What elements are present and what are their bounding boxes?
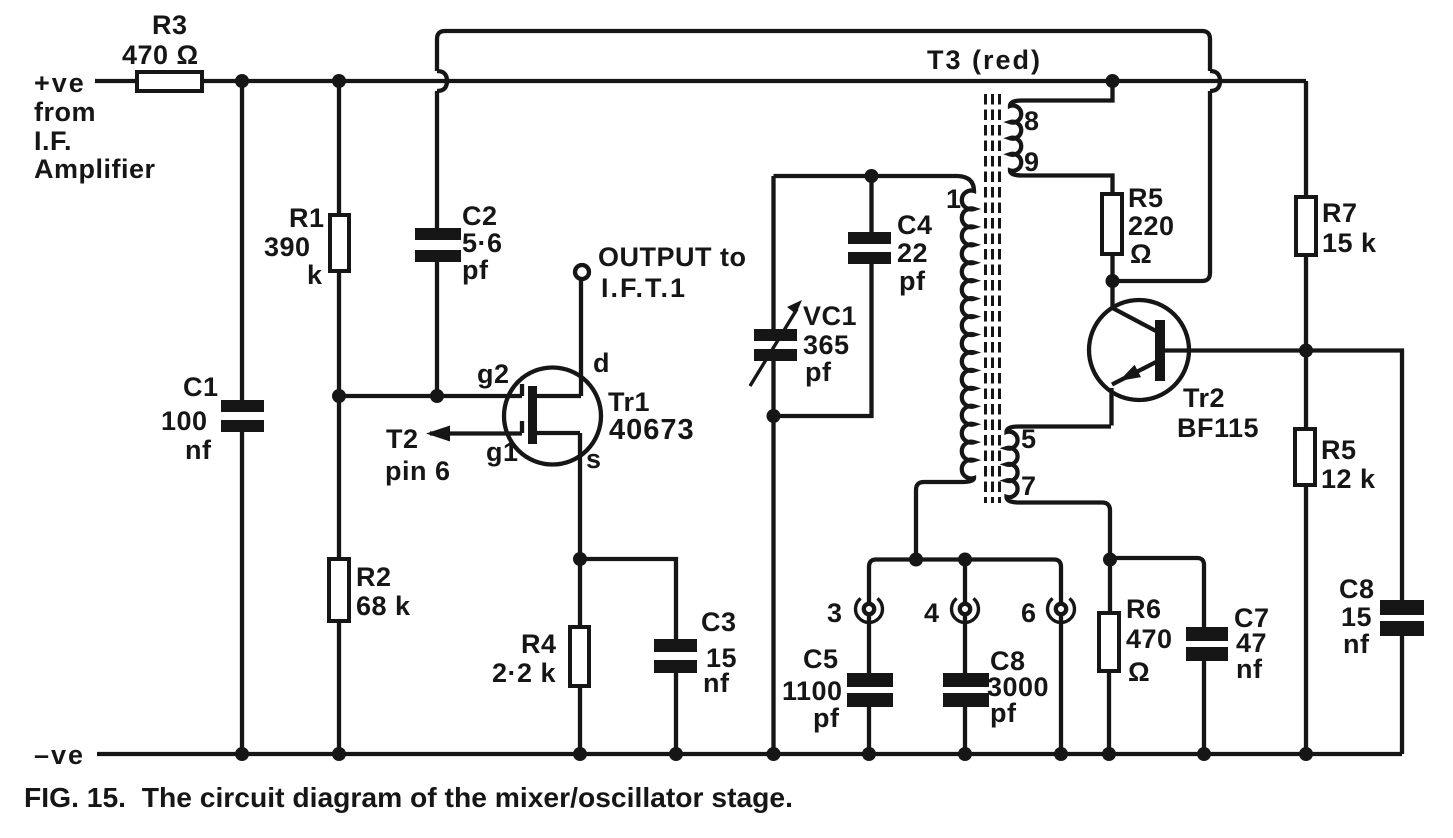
junction dot -ve C3 — [669, 747, 683, 761]
svg-text:R1: R1 — [289, 203, 325, 233]
transistor Tr2 (BF115) — [1089, 281, 1306, 443]
wire source column — [578, 433, 582, 754]
junction dot R1/g2 — [332, 389, 346, 403]
junction dot -ve R6 — [1102, 747, 1116, 761]
svg-text:5·6: 5·6 — [462, 228, 503, 258]
capacitor C3 — [654, 607, 737, 698]
wire loop right vertical — [1113, 91, 1211, 281]
svg-text:Ω: Ω — [1130, 239, 1152, 269]
svg-text:R3: R3 — [152, 10, 188, 40]
wire top feedback loop — [437, 31, 1210, 71]
svg-text:nf: nf — [703, 668, 730, 698]
svg-text:12 k: 12 k — [1321, 464, 1376, 494]
resistor R2 — [329, 559, 411, 621]
gate bar Tr1 — [528, 386, 537, 444]
variable capacitor VC1 — [750, 300, 857, 387]
svg-text:pin 6: pin 6 — [385, 456, 451, 486]
junction dot base node — [1299, 344, 1313, 358]
svg-text:220: 220 — [1128, 211, 1175, 241]
capacitor C7 — [1186, 603, 1270, 684]
resistor R7 — [1296, 197, 1377, 258]
svg-text:1100: 1100 — [782, 676, 843, 706]
svg-text:C3: C3 — [701, 607, 737, 637]
wire -ve rail — [97, 752, 1402, 756]
svg-text:R5: R5 — [1321, 435, 1357, 465]
resistor R3 — [122, 10, 202, 91]
wire hop of C2 column over +ve rail — [437, 71, 447, 91]
terminal 3 — [827, 598, 883, 628]
svg-text:I.F.: I.F. — [34, 126, 72, 156]
terminal 6 — [1021, 598, 1074, 628]
wire terminal bus — [869, 560, 1061, 604]
svg-text:VC1: VC1 — [803, 301, 857, 331]
gate g2 tick — [520, 384, 524, 396]
svg-text:15: 15 — [1341, 602, 1372, 632]
arrowhead T2 — [426, 426, 450, 442]
wire hop loop over +ve rail — [1210, 71, 1220, 91]
gate g1 tick — [520, 421, 524, 433]
junction dot -ve C1 — [235, 747, 249, 761]
wire C8 3000 to -ve — [963, 707, 967, 754]
wire C3 to -ve — [674, 673, 678, 754]
svg-text:pf: pf — [462, 255, 489, 285]
wire tap7 to C7 — [1110, 558, 1204, 627]
junction dot tap7/R6 — [1103, 553, 1117, 567]
wire terminal 4 lead — [963, 560, 967, 604]
svg-text:pf: pf — [990, 698, 1017, 728]
wire terminal 6 to -ve — [1059, 614, 1063, 754]
wire C8 to -ve — [1400, 636, 1404, 754]
transformer T3 secondary 5-7 — [1007, 424, 1112, 558]
svg-text:BF115: BF115 — [1177, 413, 1259, 443]
svg-text:R4: R4 — [521, 629, 557, 659]
junction dot -ve C5 — [862, 747, 876, 761]
svg-text:s: s — [586, 444, 602, 474]
resistor R4 — [492, 627, 589, 688]
wire winding bottom feed — [914, 556, 918, 560]
wire source to C3 — [580, 559, 676, 639]
svg-text:C8: C8 — [1339, 574, 1375, 604]
source channel — [537, 431, 580, 435]
junction dot -ve VC1 — [767, 747, 781, 761]
transformer T3 core — [986, 94, 1000, 503]
junction dot -ve R4 — [573, 747, 587, 761]
wire R7 column — [1304, 81, 1308, 754]
resistor R5 12k — [1295, 429, 1376, 494]
wire base — [1165, 348, 1306, 352]
junction dot -ve terminal 6 — [1054, 747, 1068, 761]
svg-text:pf: pf — [813, 703, 840, 733]
svg-text:9: 9 — [1024, 147, 1040, 177]
capacitor C1 — [161, 372, 264, 465]
svg-text:from: from — [34, 97, 96, 127]
wire R6 column — [1109, 560, 1110, 755]
svg-text:8: 8 — [1024, 106, 1040, 136]
wire C1 column — [240, 81, 244, 754]
drain channel — [537, 394, 581, 398]
svg-text:k: k — [307, 260, 323, 290]
svg-text:Ω: Ω — [1128, 657, 1150, 687]
terminal OUTPUT — [575, 242, 746, 303]
svg-text:390: 390 — [264, 232, 311, 262]
svg-text:470: 470 — [1126, 624, 1173, 654]
svg-text:Tr2: Tr2 — [1183, 383, 1225, 413]
wire tuned circuit bottom — [774, 264, 872, 416]
svg-text:1: 1 — [946, 184, 962, 214]
node +ve label — [34, 68, 156, 184]
svg-text:68 k: 68 k — [356, 591, 411, 621]
base bar Tr2 — [1155, 320, 1165, 381]
svg-text:40673: 40673 — [609, 414, 695, 446]
svg-text:nf: nf — [1236, 654, 1263, 684]
junction dot -ve R5 12k — [1299, 747, 1313, 761]
wire +ve rail — [95, 79, 1306, 83]
wire terminal 3 to C5 — [867, 614, 871, 673]
svg-text:I.F.T.1: I.F.T.1 — [601, 273, 687, 303]
svg-text:g2: g2 — [477, 359, 510, 389]
resistor R5 220 — [1102, 183, 1175, 269]
junction dot source node — [573, 552, 587, 566]
transformer T3 secondary 8-9 — [1010, 81, 1113, 194]
svg-text:C1: C1 — [183, 372, 219, 402]
junction dot R1/+ve — [332, 74, 346, 88]
capacitor C2 — [415, 201, 503, 285]
wire base to C8 column — [1306, 351, 1402, 601]
junction dot -ve R2 — [332, 747, 346, 761]
junction dot collector node — [1106, 274, 1120, 288]
svg-text:+ve: +ve — [34, 68, 86, 98]
svg-text:5: 5 — [1021, 424, 1037, 454]
svg-text:FIG. 15. The circuit diagram: FIG. 15. The circuit diagram of the mixe… — [24, 782, 793, 813]
svg-text:7: 7 — [1021, 471, 1037, 501]
svg-text:R2: R2 — [356, 562, 392, 592]
capacitor C5 — [782, 644, 893, 733]
resistor R6 — [1099, 594, 1173, 687]
svg-text:T2: T2 — [386, 424, 419, 454]
svg-text:470 Ω: 470 Ω — [122, 40, 199, 70]
junction dot -ve C7 — [1197, 747, 1211, 761]
transistor Tr1 (dual gate MOSFET 40673) — [426, 348, 695, 474]
junction dot feed/bus — [909, 553, 923, 567]
svg-text:2·2 k: 2·2 k — [492, 658, 557, 688]
wire C7 to -ve — [1202, 661, 1206, 754]
svg-text:OUTPUT to: OUTPUT to — [598, 242, 746, 272]
svg-text:Tr1: Tr1 — [608, 387, 650, 417]
node T2 pin 6 label — [385, 424, 451, 486]
svg-text:nf: nf — [1343, 629, 1370, 659]
svg-text:C5: C5 — [803, 644, 839, 674]
emitter with arrow — [1112, 362, 1157, 426]
svg-text:nf: nf — [185, 435, 212, 465]
wire R2 column — [337, 396, 341, 754]
svg-text:C2: C2 — [462, 201, 498, 231]
svg-text:–ve: –ve — [34, 740, 85, 770]
svg-text:Amplifier: Amplifier — [34, 154, 156, 184]
wire terminal 4 to C8 3000 — [963, 614, 967, 673]
capacitor C4 — [848, 176, 933, 296]
svg-text:22: 22 — [897, 238, 928, 268]
svg-text:T3 (red): T3 (red) — [927, 45, 1042, 75]
svg-text:R6: R6 — [1126, 594, 1162, 624]
junction dot +ve/R5 — [1106, 74, 1120, 88]
svg-text:15 k: 15 k — [1322, 228, 1377, 258]
wire drain — [579, 279, 583, 396]
svg-text:g1: g1 — [486, 437, 519, 467]
wire tuned circuit top — [774, 174, 959, 178]
svg-text:R5: R5 — [1128, 183, 1164, 213]
junction dot VC1 bottom — [767, 409, 781, 423]
wire collector — [1113, 281, 1157, 331]
junction dot C2/g2 — [430, 389, 444, 403]
junction dot C1/+ve — [235, 74, 249, 88]
wire VC1 column — [771, 176, 775, 754]
svg-text:R7: R7 — [1322, 198, 1358, 228]
terminal 4 — [924, 598, 978, 628]
svg-text:pf: pf — [805, 357, 832, 387]
wire R1 column — [337, 81, 341, 396]
svg-text:100: 100 — [161, 406, 208, 436]
wire R5 to collector — [1110, 254, 1114, 281]
wire C5 to -ve — [867, 707, 871, 754]
wire g2 node — [339, 394, 522, 398]
svg-text:4: 4 — [924, 598, 940, 628]
capacitor C8 15nf — [1339, 574, 1424, 659]
junction dot C4 top — [865, 169, 879, 183]
svg-text:d: d — [593, 348, 610, 378]
junction dot bus/terminal4 — [958, 553, 972, 567]
junction dot -ve C8 3000 — [958, 747, 972, 761]
wire C2 column — [435, 91, 439, 396]
svg-text:pf: pf — [899, 266, 926, 296]
svg-text:C4: C4 — [897, 210, 933, 240]
transformer T3 primary winding — [916, 176, 974, 556]
capacitor C8 3000pf — [943, 646, 1049, 728]
svg-text:3: 3 — [827, 598, 843, 628]
svg-text:365: 365 — [803, 330, 850, 360]
resistor R1 — [264, 203, 349, 290]
wire g1 to T2 arrow — [430, 431, 522, 435]
svg-text:6: 6 — [1021, 598, 1037, 628]
